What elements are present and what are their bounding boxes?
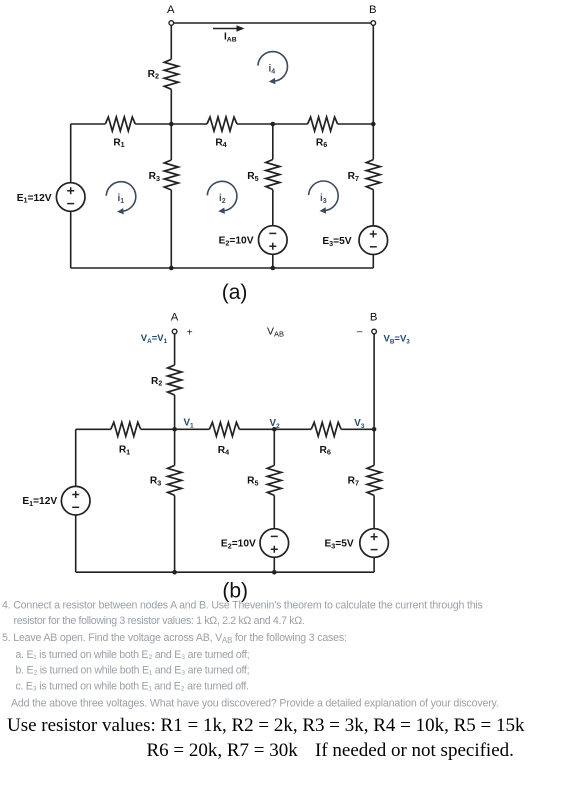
- svg-text:Use resistor values: R1 = 1k,: Use resistor values: R1 = 1k, R2 = 2k, R…: [7, 715, 525, 736]
- svg-text:R4: R4: [218, 445, 229, 457]
- problem text item 5: [2, 632, 347, 645]
- circuit (b): middle rail wire segments: [76, 428, 374, 430]
- svg-text:R7: R7: [348, 171, 359, 183]
- circuit (b): resistor R3 column: [150, 429, 182, 572]
- svg-text:A: A: [171, 311, 179, 323]
- svg-text:–: –: [357, 327, 363, 338]
- circuit (a): wire node A down to R2: [170, 23, 172, 59]
- svg-text:B: B: [370, 311, 378, 323]
- circuit (b): wire R2 to middle rail: [174, 395, 176, 429]
- svg-text:R1: R1: [119, 445, 130, 457]
- svg-text:i1: i1: [118, 193, 125, 205]
- circuit (b): voltage source E2=10V: [221, 529, 289, 573]
- svg-text:(a): (a): [222, 281, 248, 304]
- svg-text:R1: R1: [113, 137, 124, 149]
- svg-text:i3: i3: [320, 193, 327, 205]
- circuit (b): left rail wires: [75, 429, 77, 572]
- circuit (a): bottom rail wire: [71, 267, 374, 269]
- svg-text:A: A: [167, 4, 175, 16]
- svg-text:VA=V1: VA=V1: [141, 333, 168, 345]
- resistor values note line 2: [147, 740, 514, 761]
- svg-text:5. Leave AB open. Find the vol: 5. Leave AB open. Find the voltage acros…: [2, 632, 347, 645]
- problem text item 5a: [16, 649, 250, 661]
- circuit (b): bottom rail wire: [76, 571, 374, 573]
- circuit (a): resistor R6: [308, 117, 338, 149]
- svg-text:E3=5V: E3=5V: [322, 236, 351, 248]
- circuit (b): node B terminal with minus: [357, 311, 377, 337]
- svg-text:+: +: [187, 327, 193, 338]
- circuit (a): top wire from node A to node B: [171, 22, 373, 24]
- svg-text:R6: R6: [316, 137, 327, 149]
- problem text item 5c: [16, 680, 249, 692]
- circuit (a): mesh current loop i4: [258, 52, 288, 85]
- circuit (a): mesh current loop i2: [207, 181, 237, 214]
- svg-text:IAB: IAB: [224, 32, 237, 44]
- circuit (b): node label V3: [354, 418, 365, 430]
- circuit (a): node A terminal: [167, 4, 175, 26]
- circuit (b): wire node B down to middle rail: [373, 334, 375, 430]
- svg-text:E1=12V: E1=12V: [22, 496, 57, 508]
- circuit (a): resistor R4: [207, 117, 237, 149]
- circuit (a): middle rail wire segments: [71, 123, 374, 125]
- svg-text:R7: R7: [348, 476, 359, 488]
- svg-text:E2=10V: E2=10V: [219, 236, 254, 248]
- circuit (b): junction dots: [172, 427, 376, 575]
- svg-text:If needed or not specified.: If needed or not specified.: [315, 740, 514, 761]
- resistor values note line 1: [7, 715, 525, 736]
- svg-text:B: B: [369, 4, 377, 16]
- svg-text:Add the above three voltages.: Add the above three voltages. What have …: [11, 698, 499, 710]
- svg-text:R4: R4: [215, 137, 226, 149]
- svg-text:E3=5V: E3=5V: [324, 539, 353, 551]
- circuit (b): wire node A down to R2: [174, 334, 176, 365]
- circuit (b): node label V2: [270, 418, 281, 430]
- svg-text:R5: R5: [247, 476, 258, 488]
- svg-text:VB=V3: VB=V3: [384, 334, 411, 346]
- circuit (a): resistor R7 column: [348, 124, 381, 226]
- circuit (a): resistor R3 column: [149, 124, 179, 268]
- circuit (a): junction dots: [169, 122, 376, 271]
- circuit (a): resistor R2: [148, 59, 179, 89]
- circuit (b): voltage source E3=5V: [324, 529, 388, 573]
- caption (b): [222, 580, 248, 603]
- circuit (b): voltage source E1=12V: [22, 486, 90, 515]
- svg-text:R5: R5: [247, 171, 258, 183]
- svg-text:VAB: VAB: [267, 326, 284, 339]
- circuit (a): resistor R5 column: [247, 124, 280, 226]
- circuit (a): mesh current loop i1: [106, 182, 136, 215]
- circuit (a): voltage source E3=5V: [322, 226, 387, 268]
- problem text closing line: [11, 698, 499, 710]
- circuit (b): resistor R1: [111, 422, 141, 456]
- circuit (a): wire node B down to middle rail: [372, 23, 374, 124]
- circuit (b): label VAB: [267, 326, 284, 339]
- circuit (b): node label VB=V3: [384, 334, 411, 346]
- circuit (b): resistor R5 column: [247, 429, 281, 528]
- circuit (a): current arrow IAB: [213, 25, 245, 43]
- svg-text:V1: V1: [184, 418, 195, 430]
- circuit (b): resistor R4: [209, 422, 239, 456]
- circuit (a): mesh current loop i3: [309, 181, 339, 214]
- problem text item 4 line 2: [14, 615, 305, 627]
- svg-text:i2: i2: [219, 193, 226, 205]
- svg-text:c. E₃ is turned on while both: c. E₃ is turned on while both E₁ and E₂ …: [16, 680, 249, 692]
- circuit (b): node label V1: [184, 418, 195, 430]
- circuit (b): node A terminal with plus: [171, 311, 193, 338]
- svg-text:R2: R2: [148, 69, 159, 81]
- svg-text:a. E₁ is turned on while both: a. E₁ is turned on while both E₂ and E₃ …: [16, 649, 250, 661]
- svg-text:b. E₂ is turned on while both: b. E₂ is turned on while both E₁ and E₃ …: [16, 665, 250, 677]
- problem text item 5b: [16, 665, 250, 677]
- circuit (a): wire R2 to middle rail: [170, 89, 172, 124]
- svg-text:R3: R3: [149, 171, 160, 183]
- problem text item 4 line 1: [2, 600, 483, 612]
- svg-text:R6: R6: [320, 445, 331, 457]
- circuit (a): voltage source E2=10V: [219, 226, 287, 268]
- circuit (a): node B terminal: [369, 4, 377, 26]
- circuit (b): resistor R2: [151, 365, 182, 395]
- svg-text:resistor for the following 3 r: resistor for the following 3 resistor va…: [14, 615, 305, 627]
- svg-text:i4: i4: [269, 64, 276, 76]
- svg-text:R6 = 20k, R7 = 30k: R6 = 20k, R7 = 30k: [147, 740, 299, 761]
- svg-text:R3: R3: [150, 476, 161, 488]
- circuit (a): left rail wires: [70, 124, 72, 268]
- circuit (b): resistor R7 column: [348, 429, 381, 528]
- svg-text:4. Connect a resistor between: 4. Connect a resistor between nodes A an…: [2, 600, 483, 612]
- circuit (a): resistor R1: [105, 117, 135, 149]
- svg-text:V3: V3: [354, 418, 365, 430]
- svg-text:R2: R2: [151, 376, 162, 388]
- circuit (b): resistor R6: [311, 422, 341, 456]
- circuit (a): voltage source E1=12V: [17, 183, 85, 212]
- svg-text:E2=10V: E2=10V: [221, 539, 256, 551]
- svg-text:E1=12V: E1=12V: [17, 193, 52, 205]
- circuit (b): node label VA=V1: [141, 333, 168, 345]
- caption (a): [222, 281, 248, 304]
